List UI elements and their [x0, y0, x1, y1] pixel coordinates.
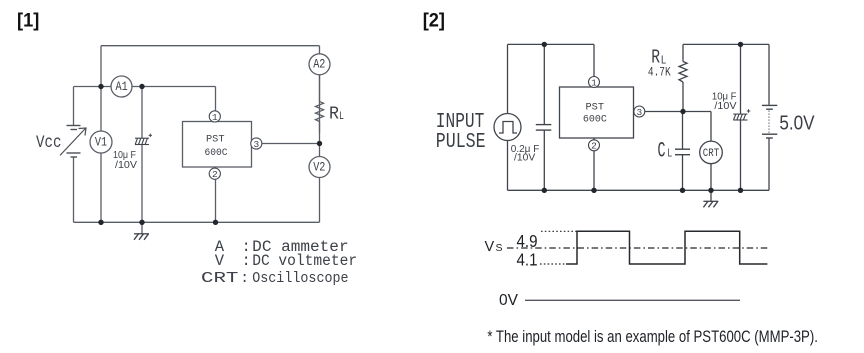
svg-text:[2]: [2] — [423, 9, 445, 31]
svg-text:3: 3 — [253, 139, 259, 150]
svg-text:Oscilloscope: Oscilloscope — [252, 271, 348, 287]
svg-text:V: V — [485, 239, 495, 255]
svg-text:3: 3 — [636, 107, 642, 118]
svg-text:2: 2 — [212, 169, 218, 180]
svg-text:A2: A2 — [313, 57, 325, 72]
svg-text:C: C — [658, 139, 666, 164]
svg-text:L: L — [667, 147, 672, 161]
svg-text:2: 2 — [591, 141, 597, 152]
svg-text:4.9: 4.9 — [517, 231, 538, 251]
svg-text:R: R — [329, 105, 339, 125]
svg-text:600C: 600C — [583, 114, 607, 126]
svg-text:/10V: /10V — [514, 152, 535, 164]
svg-text:V1: V1 — [95, 134, 107, 149]
svg-text:* The input model is an exampl: * The input model is an example of PST60… — [487, 328, 818, 346]
svg-text:1: 1 — [212, 112, 218, 123]
svg-text:5.0V: 5.0V — [779, 111, 814, 134]
svg-text::: : — [242, 252, 251, 270]
svg-text:CRT: CRT — [703, 148, 720, 160]
svg-text:PULSE: PULSE — [436, 131, 486, 154]
svg-text:4.7K: 4.7K — [648, 65, 671, 80]
svg-text:4.1: 4.1 — [517, 250, 538, 270]
svg-text:A1: A1 — [116, 79, 128, 94]
svg-text:PST: PST — [586, 102, 605, 114]
svg-text:PST: PST — [206, 134, 225, 146]
svg-text:V: V — [215, 252, 225, 270]
svg-text:1: 1 — [591, 77, 597, 88]
svg-text:Vcc: Vcc — [36, 133, 62, 153]
svg-text:/10V: /10V — [714, 101, 736, 112]
svg-text:DC voltmeter: DC voltmeter — [252, 252, 357, 270]
svg-text:[1]: [1] — [17, 9, 39, 31]
svg-text:600C: 600C — [205, 147, 228, 159]
svg-text:S: S — [496, 242, 503, 254]
svg-text:/10V: /10V — [115, 159, 137, 171]
svg-text:V2: V2 — [313, 159, 325, 174]
svg-text:CRT: CRT — [201, 271, 239, 287]
svg-text:0V: 0V — [499, 292, 519, 309]
svg-text:L: L — [339, 111, 344, 123]
svg-text::: : — [240, 271, 249, 287]
